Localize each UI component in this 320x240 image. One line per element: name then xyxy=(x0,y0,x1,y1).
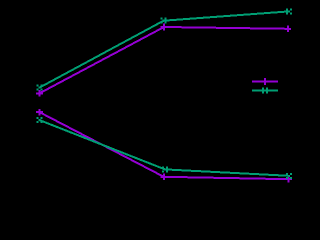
legend sample green x marker xyxy=(262,88,268,94)
legend sample purple + marker xyxy=(262,78,269,85)
series 1 purple + markers xyxy=(36,24,292,183)
series 2 green upper line xyxy=(40,11,289,87)
legend sample green line xyxy=(252,90,278,92)
series 2 green lower line xyxy=(40,120,289,176)
legend sample purple line xyxy=(252,81,278,83)
series 2 green x markers xyxy=(37,8,292,178)
series 1 purple lower line xyxy=(40,112,289,179)
series 1 purple upper line xyxy=(40,27,288,93)
